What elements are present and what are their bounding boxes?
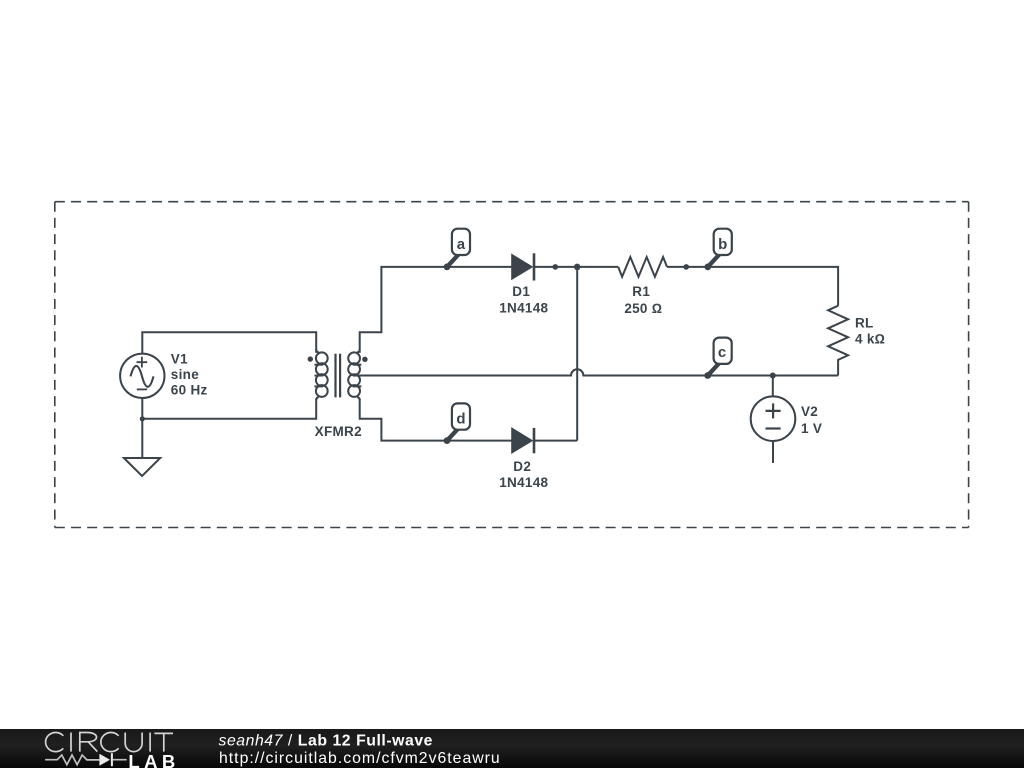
svg-text:a: a bbox=[457, 236, 466, 253]
junction of D1 output with vertical wire bbox=[574, 264, 581, 271]
junction at V1 bottom bbox=[140, 416, 145, 421]
dot at D1 cathode terminal bbox=[553, 264, 559, 270]
svg-text:V2: V2 bbox=[801, 404, 818, 419]
transformer XFMR2 secondary coil bbox=[348, 350, 361, 401]
svg-text:RL: RL bbox=[855, 316, 874, 331]
transformer secondary phasing dot bbox=[362, 357, 367, 362]
wire V2 top lead bbox=[772, 376, 774, 397]
resistor RL bbox=[828, 306, 848, 376]
svg-text:XFMR2: XFMR2 bbox=[315, 424, 362, 439]
svg-text:http://circuitlab.com/cfvm2v6t: http://circuitlab.com/cfvm2v6teawru bbox=[219, 750, 501, 767]
wire D2 cathode to vertical wire bbox=[534, 440, 577, 442]
svg-text:1 V: 1 V bbox=[801, 421, 822, 436]
footer bar bbox=[0, 729, 1024, 768]
voltage source V2 bbox=[751, 396, 796, 441]
voltage source V1 bbox=[120, 354, 164, 398]
svg-text:1N4148: 1N4148 bbox=[499, 301, 548, 316]
svg-text:seanh47 / Lab 12 Full-wave: seanh47 / Lab 12 Full-wave bbox=[219, 733, 434, 750]
wire center tap to node c and RL bottom, with hop over vertical wire bbox=[360, 369, 838, 375]
node flag d bbox=[444, 403, 470, 444]
wire secondary top to node a and D1 anode bbox=[360, 267, 513, 353]
wire V1 bottom to ground bbox=[141, 398, 143, 458]
svg-text:250 Ω: 250 Ω bbox=[624, 301, 662, 316]
node flag b bbox=[704, 229, 731, 271]
svg-text:4 kΩ: 4 kΩ bbox=[855, 332, 885, 347]
svg-text:D2: D2 bbox=[513, 459, 531, 474]
wire vertical from D1 cathode node down to D2 cathode bbox=[576, 267, 578, 441]
diode D2 bbox=[512, 428, 534, 453]
dot at R1 right terminal bbox=[683, 264, 689, 270]
logo diode bbox=[99, 753, 112, 766]
diode D1 bbox=[512, 253, 534, 280]
ground bbox=[124, 458, 160, 476]
wire V2 bottom lead bbox=[772, 441, 774, 463]
wire R1 to RL top bbox=[667, 267, 838, 306]
svg-text:D1: D1 bbox=[512, 284, 530, 299]
CircuitLab logo wordmark CIRCUIT bbox=[46, 732, 173, 751]
node flag c bbox=[704, 338, 731, 379]
svg-text:b: b bbox=[718, 236, 727, 253]
junction of V2 with center tap wire bbox=[770, 373, 776, 379]
svg-text:V1: V1 bbox=[171, 351, 188, 366]
transformer XFMR2 core bbox=[336, 354, 341, 398]
wire primary coil bottom to V1 bottom rail bbox=[142, 398, 316, 418]
svg-text:60 Hz: 60 Hz bbox=[171, 383, 208, 398]
wire secondary bottom to node d and D2 anode bbox=[360, 398, 513, 440]
svg-text:R1: R1 bbox=[632, 284, 650, 299]
transformer primary phasing dot bbox=[308, 356, 313, 361]
svg-text:sine: sine bbox=[171, 367, 199, 382]
transformer XFMR2 primary coil bbox=[315, 350, 328, 401]
wire D1 cathode to R1 bbox=[534, 266, 618, 268]
svg-text:LAB: LAB bbox=[128, 751, 179, 768]
svg-text:1N4148: 1N4148 bbox=[499, 475, 548, 490]
resistor R1 bbox=[618, 257, 667, 277]
svg-text:c: c bbox=[718, 344, 726, 361]
node flag a bbox=[444, 229, 470, 271]
logo resistor squiggle bbox=[45, 755, 127, 765]
svg-text:d: d bbox=[456, 411, 465, 428]
wire V1 top to primary coil top bbox=[142, 332, 316, 354]
